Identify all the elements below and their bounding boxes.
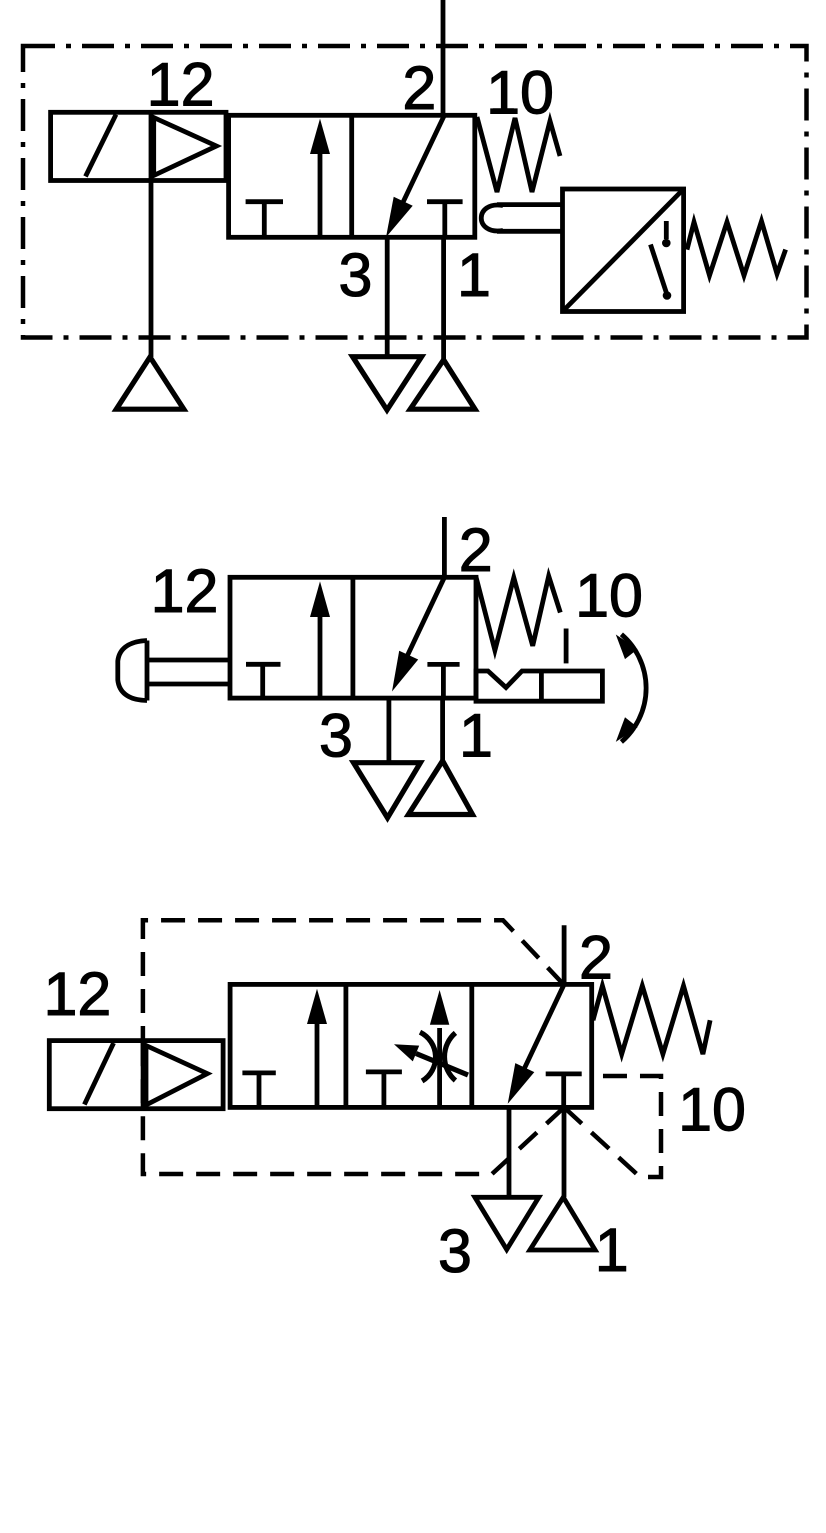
mechanism dashed frame lower part (bottom valve) bbox=[143, 1050, 564, 1174]
svg-text:3: 3 bbox=[339, 241, 373, 309]
serif foot for digit 1 of label 12 (top valve) bbox=[154, 101, 175, 106]
solenoid Y2 divider bbox=[141, 1041, 146, 1109]
serif foot for digit 1 of label 12 (bottom valve) bbox=[50, 1010, 71, 1015]
svg-text:1: 1 bbox=[595, 1216, 629, 1284]
supply triangle port 1 (bottom valve, up) bbox=[530, 1197, 595, 1250]
return spring (top valve) bbox=[477, 117, 560, 192]
throttle adjust slash (bottom valve) bbox=[416, 1054, 468, 1076]
flow arrow up, chamber 1 (bottom valve) bbox=[315, 1022, 320, 1107]
wire pilot exhaust line (top valve) bbox=[149, 181, 154, 358]
flow arrow up, left chamber (top valve) bbox=[318, 152, 323, 237]
svg-text:12: 12 bbox=[151, 557, 219, 625]
serif foot for digit 1 of label 10 (top valve) bbox=[493, 108, 514, 113]
wire port 1 line (bottom valve) bbox=[562, 1107, 567, 1197]
valve body divider left (bottom valve) bbox=[343, 984, 348, 1107]
svg-text:10: 10 bbox=[678, 1076, 746, 1144]
svg-text:12: 12 bbox=[147, 51, 215, 119]
wire port 1 line (middle valve) bbox=[440, 698, 445, 761]
wire port 2 line (bottom valve) bbox=[562, 925, 567, 984]
valve body (middle valve, 3/2 way) bbox=[230, 577, 476, 698]
svg-text:1: 1 bbox=[457, 241, 491, 309]
manual pushbutton cap (middle valve) bbox=[118, 641, 147, 701]
flow arrow diagonal, right chamber (top valve) bbox=[396, 116, 444, 217]
flow arrow head up, chamber 1 (bottom valve) bbox=[307, 989, 327, 1024]
blocked port T, chamber 1 (bottom valve) bbox=[242, 1073, 275, 1107]
solenoid Y2 coil diagonal bbox=[84, 1043, 113, 1105]
switch blade bbox=[651, 245, 667, 295]
svg-text:2: 2 bbox=[579, 924, 613, 992]
svg-text:10: 10 bbox=[575, 562, 643, 630]
solenoid Y1 divider bbox=[149, 112, 154, 180]
blocked port T, chamber 3 (bottom valve) bbox=[546, 1074, 582, 1108]
solenoid Y2 box (bottom valve) bbox=[49, 1041, 223, 1109]
blocked port T, left chamber (middle valve) bbox=[246, 664, 281, 698]
switch contact top dot bbox=[662, 239, 671, 248]
throttle adjust arrow head bbox=[394, 1044, 419, 1061]
flow arrow head diagonal, right chamber (middle valve) bbox=[392, 651, 418, 692]
flow arrow head up, chamber 2 (bottom valve) bbox=[430, 990, 449, 1025]
blocked port T, left chamber (top valve) bbox=[246, 202, 283, 237]
throttle arc right (bottom valve) bbox=[444, 1033, 455, 1081]
swivel arc (middle valve) bbox=[621, 634, 646, 742]
wire port 2 line (top valve) bbox=[441, 0, 446, 116]
pilot amplifier triangle (top valve) bbox=[154, 118, 217, 176]
exhaust silencer triangle under solenoid (top valve) bbox=[116, 357, 184, 409]
flow arrow diagonal, chamber 3 (bottom valve) bbox=[517, 985, 564, 1084]
switch box spring bbox=[687, 221, 786, 275]
svg-text:1: 1 bbox=[459, 702, 493, 770]
detent pin bbox=[564, 629, 569, 664]
throttle arc left (bottom valve) bbox=[420, 1032, 436, 1081]
serif foot for digit 1 of label 1 (bottom valve) bbox=[601, 1266, 622, 1271]
wire port 3 line (bottom valve) bbox=[507, 1107, 512, 1197]
solenoid Y1 box (top valve) bbox=[51, 112, 226, 180]
detent latch divider bbox=[539, 671, 544, 701]
valve body divider (top valve) bbox=[349, 115, 354, 237]
solenoid Y1 coil diagonal bbox=[86, 115, 117, 177]
svg-text:2: 2 bbox=[459, 516, 493, 584]
serif foot for digit 1 of label 1 (top valve) bbox=[464, 291, 485, 296]
serif foot for digit 1 of label 10 (middle valve) bbox=[582, 612, 603, 617]
flow arrow up, left chamber (middle valve) bbox=[318, 614, 323, 698]
exhaust triangle port 3 (bottom valve, down) bbox=[475, 1197, 539, 1249]
plunger rounded cap bbox=[481, 205, 503, 231]
enclosure dash-dot frame (top valve assembly) bbox=[23, 46, 807, 338]
swivel arrow head bottom bbox=[616, 717, 638, 742]
flow arrow head up, left chamber (top valve) bbox=[310, 119, 330, 154]
flow arrow head diagonal, right chamber (top valve) bbox=[386, 197, 413, 238]
pilot amplifier triangle (bottom valve) bbox=[146, 1046, 207, 1106]
blocked port T, right chamber (top valve) bbox=[427, 202, 463, 238]
svg-text:3: 3 bbox=[319, 702, 353, 770]
flow arrow diagonal, right chamber (middle valve) bbox=[402, 577, 444, 667]
flow arrow head diagonal, chamber 3 (bottom valve) bbox=[508, 1063, 535, 1104]
wire port 1 line (top valve) bbox=[441, 237, 446, 359]
detent dashed outline 10 (bottom valve) bbox=[564, 1076, 661, 1177]
return spring (bottom valve) bbox=[593, 986, 710, 1054]
blocked port T, right chamber (middle valve) bbox=[427, 664, 459, 698]
plunger stem lines (top valve to switch box) bbox=[497, 205, 563, 232]
return spring (middle valve) bbox=[476, 576, 560, 650]
exhaust triangle port 3 (top valve, down) bbox=[353, 357, 422, 410]
exhaust triangle port 3 (middle valve, down) bbox=[354, 763, 421, 818]
mechanism dashed frame upper part (bottom valve) bbox=[143, 920, 564, 1055]
serif foot for digit 1 of label 1 (middle valve) bbox=[466, 752, 487, 757]
valve body (bottom valve, 3/2 way with throttle) bbox=[230, 984, 592, 1107]
switch box diagonal bbox=[563, 189, 684, 312]
wire port 3 line (top valve) bbox=[385, 237, 390, 356]
serif foot for digit 1 of label 2/10 (bottom valve) bbox=[685, 1126, 706, 1131]
svg-text:3: 3 bbox=[438, 1217, 472, 1285]
valve body divider (middle valve) bbox=[350, 577, 355, 698]
wire port 2 line (middle valve) bbox=[442, 517, 447, 577]
detent latch body (middle valve) bbox=[476, 671, 602, 701]
svg-text:12: 12 bbox=[43, 960, 111, 1028]
svg-text:10: 10 bbox=[486, 59, 554, 127]
blocked port T, chamber 2 (bottom valve) bbox=[366, 1072, 402, 1107]
flow arrow head up, left chamber (middle valve) bbox=[310, 581, 330, 617]
svg-text:2: 2 bbox=[402, 54, 436, 122]
supply triangle port 1 (top valve, up) bbox=[410, 360, 475, 409]
flow arrow up, chamber 2 (bottom valve) bbox=[437, 1028, 442, 1107]
swivel arrow head top bbox=[616, 635, 638, 660]
switch contact bottom dot bbox=[663, 291, 672, 300]
switch contact top lead bbox=[664, 221, 669, 239]
wire port 3 line (middle valve) bbox=[386, 698, 391, 761]
valve body (top valve, 3/2 way) bbox=[229, 115, 475, 237]
pushbutton stem lines bbox=[147, 660, 230, 684]
serif foot for digit 1 of label 12 (middle valve) bbox=[157, 607, 178, 612]
valve body divider right (bottom valve) bbox=[469, 984, 474, 1107]
electric switch converter box U1 bbox=[563, 189, 684, 312]
supply triangle port 1 (middle valve, up) bbox=[408, 761, 472, 815]
